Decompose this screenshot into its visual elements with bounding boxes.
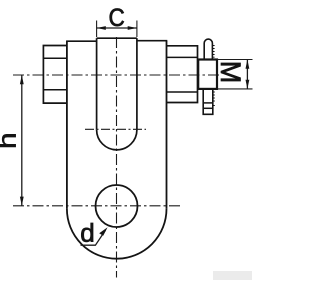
dimension C arrow right (128, 26, 137, 30)
pin upper thread ticks (212, 46, 214, 58)
dimension M extension line bottom (217, 88, 253, 90)
watermark (213, 271, 252, 280)
right boss facet line 2 (167, 91, 198, 93)
dimension C extension line left (96, 21, 98, 38)
dimension h arrow bottom (20, 197, 24, 206)
dimension C arrow left (97, 26, 106, 30)
slot right edge (136, 38, 138, 130)
centerline vertical (x=116.5) (116, 37, 118, 278)
dimension C extension line right (136, 21, 138, 38)
pin lower band line 2 (203, 107, 213, 109)
label C (110, 9, 124, 27)
dimension h arrow top (20, 75, 24, 84)
pin lower thread ticks (213, 92, 215, 106)
slot left edge (96, 38, 98, 130)
label h (0, 134, 16, 147)
dimension M arrow bottom (246, 80, 250, 89)
pin upper (rounded top) (204, 39, 212, 59)
column (tongue) top (97, 37, 137, 39)
centerline horizontal upper (through bosses, y=75) (13, 74, 219, 76)
pin lower band line 1 (203, 102, 213, 104)
body top right shoulder (137, 40, 167, 42)
body bottom round (67, 209, 167, 259)
centerline horizontal lower (through hole, y=205.8) (13, 205, 181, 207)
right boss outline (167, 46, 198, 103)
left boss facet line 1 (43, 57, 67, 59)
body left edge (66, 41, 68, 209)
body top left shoulder (66, 40, 97, 42)
leader line for d (81, 230, 106, 245)
pin lower (203, 89, 213, 114)
dimension M line (246, 60, 248, 89)
nut block (198, 60, 217, 89)
left boss facet line 2 (43, 89, 67, 91)
dimension M extension line top (217, 59, 253, 61)
label d (81, 223, 93, 242)
body right edge (166, 41, 168, 209)
dimension C line (97, 27, 137, 29)
left boss outline (43, 46, 67, 104)
dimension h line (21, 75, 23, 206)
slot bottom arc (97, 130, 137, 150)
right boss facet line 1 (167, 56, 198, 58)
leader arrowhead (99, 227, 107, 236)
label M (221, 63, 241, 81)
hole circle (96, 185, 138, 227)
dimension M arrow top (246, 60, 250, 69)
centerline horizontal slot arc (y=129.3) (85, 128, 146, 130)
